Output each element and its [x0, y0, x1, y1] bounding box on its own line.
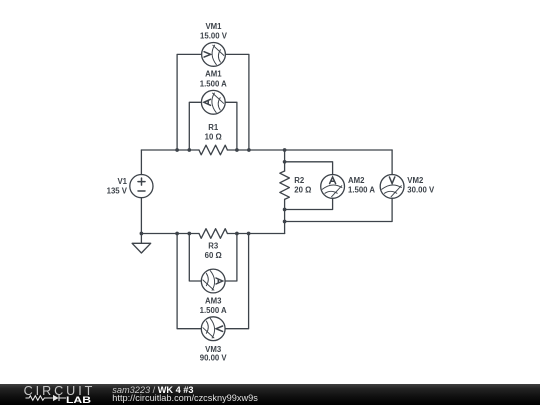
svg-text:135 V: 135 V	[107, 186, 128, 195]
CircuitLab logo schematic line	[24, 393, 68, 404]
node bottom rail / VM3 left	[175, 232, 179, 236]
node bottom rail / AM3 right	[235, 232, 239, 236]
node bottom rail / VM3 right	[247, 232, 251, 236]
ammeter AM3	[201, 269, 225, 293]
node R2 / AM2 bottom	[283, 208, 287, 212]
svg-text:R2: R2	[294, 176, 305, 185]
svg-text:10 Ω: 10 Ω	[205, 133, 222, 142]
node R2 / AM2 top	[283, 160, 287, 164]
ammeter AM1	[201, 90, 225, 114]
voltmeter VM1	[202, 43, 226, 67]
ammeter AM2	[321, 175, 345, 199]
footer byline	[112, 386, 193, 395]
svg-text:AM3: AM3	[205, 296, 222, 305]
wire AM2 bottom branch	[285, 198, 333, 209]
resistor R3	[199, 229, 227, 239]
svg-text:1.500 A: 1.500 A	[200, 79, 227, 88]
wire top rail right	[227, 149, 392, 151]
svg-text:1.500 A: 1.500 A	[200, 306, 227, 315]
svg-text:R1: R1	[208, 123, 219, 132]
footer bar	[0, 384, 540, 405]
node top rail / AM1 right	[235, 148, 239, 152]
wire VM3 loop right	[225, 234, 248, 329]
wire AM1 loop left	[189, 102, 201, 150]
svg-text:VM2: VM2	[407, 176, 424, 185]
wire bottom rail left	[141, 233, 199, 235]
wire VM3 loop left	[177, 234, 201, 329]
voltmeter VM3	[201, 317, 225, 341]
svg-text:VM1: VM1	[205, 22, 222, 31]
node top rail / AM1 left	[187, 148, 191, 152]
svg-text:30.00 V: 30.00 V	[407, 186, 435, 195]
wire R2 top lead	[284, 150, 286, 171]
svg-text:90.00 V: 90.00 V	[200, 353, 228, 362]
node top rail / VM1 left	[175, 148, 179, 152]
svg-text:20 Ω: 20 Ω	[294, 186, 311, 195]
node bottom rail / V1 ground	[140, 232, 144, 236]
svg-text:AM1: AM1	[205, 70, 222, 79]
wire AM3 loop left	[189, 234, 201, 282]
resistor R1	[199, 145, 227, 155]
wire VM1 loop left	[177, 54, 202, 150]
node R2 / VM2 bottom	[283, 220, 287, 224]
svg-text:V1: V1	[117, 177, 127, 186]
resistor R2	[280, 171, 290, 199]
ground	[132, 243, 151, 253]
node top rail / VM1 right	[247, 148, 251, 152]
node bottom rail / AM3 left	[187, 232, 191, 236]
wire AM3 loop right	[225, 234, 237, 282]
node top rail / R2	[283, 148, 287, 152]
voltmeter VM2	[380, 175, 404, 199]
CircuitLab logo wordmark	[24, 385, 96, 398]
wire VM2 top lead	[391, 150, 393, 175]
footer url	[112, 394, 258, 403]
svg-text:60 Ω: 60 Ω	[205, 251, 222, 260]
wire AM2 top branch	[285, 162, 333, 175]
wire V1 bottom lead	[140, 198, 142, 234]
svg-text:AM2: AM2	[348, 176, 365, 185]
svg-text:R3: R3	[208, 241, 219, 250]
wire top rail left	[141, 149, 199, 151]
wire VM2 bottom branch	[285, 198, 393, 221]
wire R2 bottom lead	[284, 199, 286, 233]
CircuitLab logo LAB	[66, 396, 91, 405]
wire AM1 loop right	[225, 102, 237, 150]
svg-text:1.500 A: 1.500 A	[348, 186, 375, 195]
wire bottom rail right	[227, 233, 284, 235]
wire ground stub	[140, 234, 142, 244]
wire V1 top lead	[140, 150, 142, 175]
wire VM1 loop right	[225, 54, 249, 150]
voltage source V1	[130, 175, 153, 198]
svg-text:15.00 V: 15.00 V	[200, 31, 228, 40]
